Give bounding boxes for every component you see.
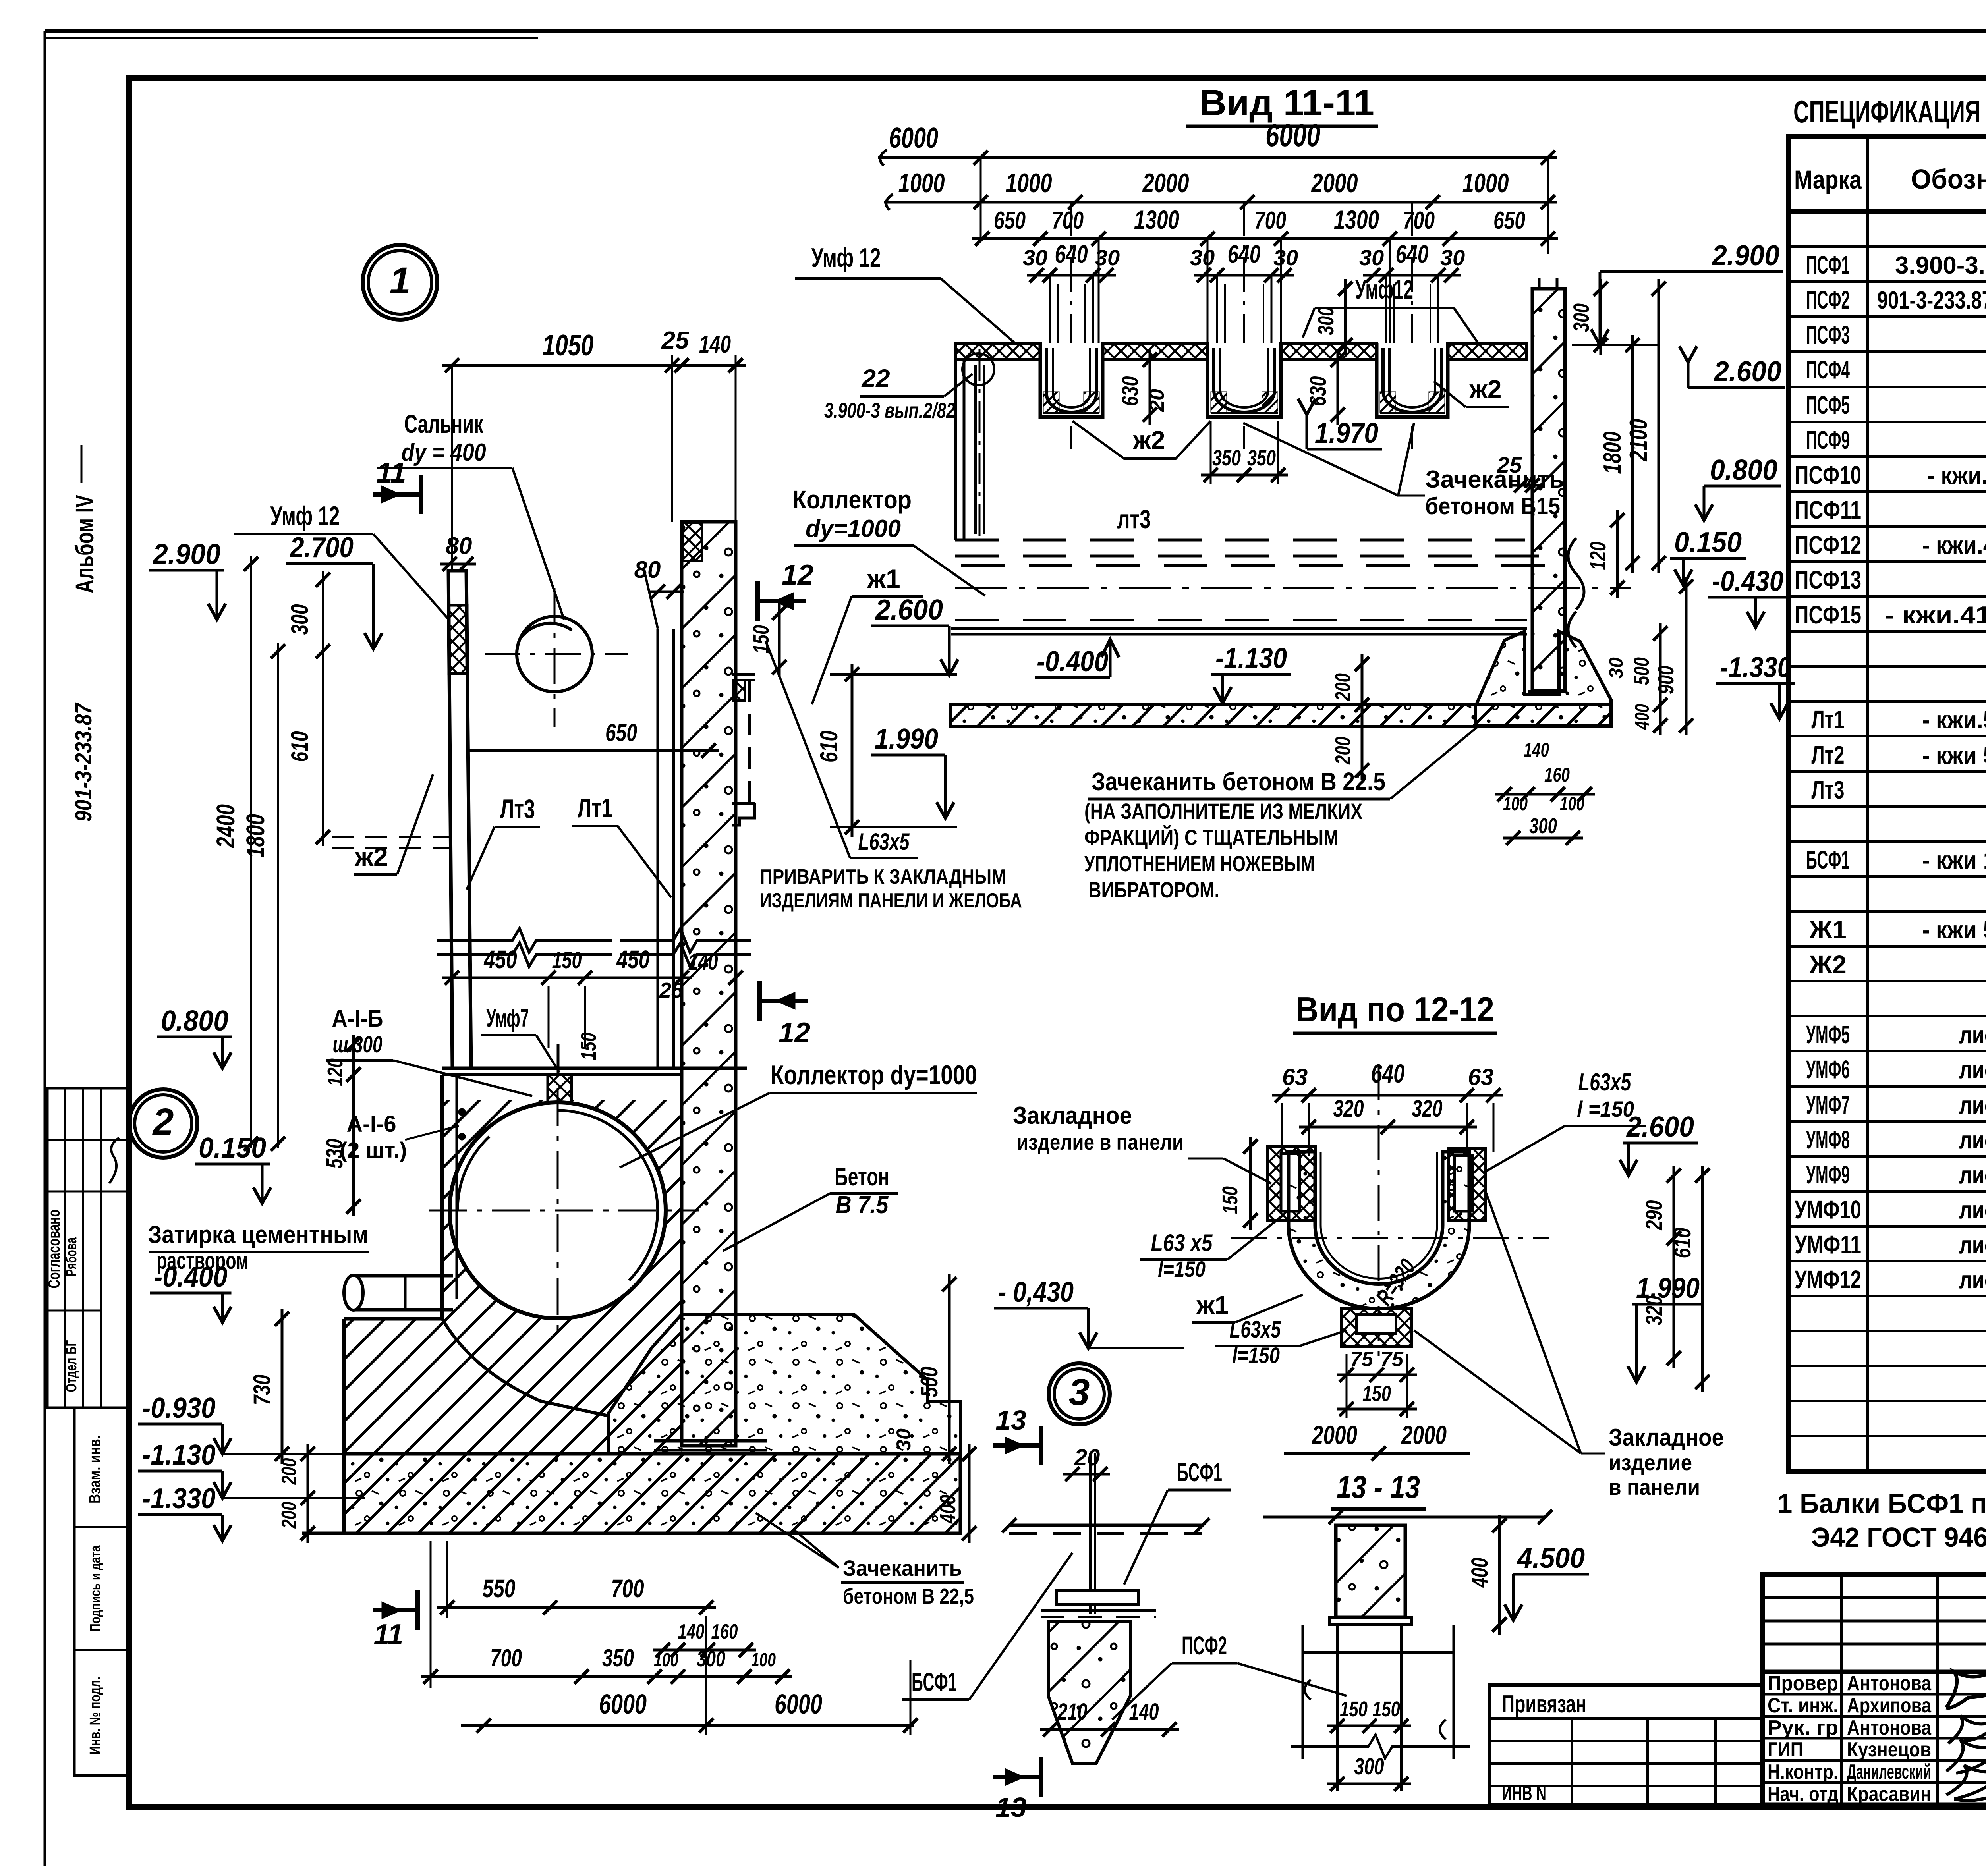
svg-text:100: 100 (751, 1650, 776, 1671)
v12 embed blocks (1268, 1146, 1486, 1220)
svg-text:140: 140 (699, 331, 731, 358)
svg-text:УМФ12: УМФ12 (1795, 1265, 1861, 1294)
svg-text:лист 54: лист 54 (1959, 1127, 1986, 1154)
svg-text:30: 30 (1023, 245, 1047, 270)
view 12-12 title (1293, 990, 1497, 1033)
node circle 1 (363, 245, 437, 320)
svg-text:0.150: 0.150 (1674, 527, 1742, 558)
svg-text:- кжи 13,00,00: - кжи 13,00,00 (1922, 847, 1986, 874)
svg-text:ИЗДЕЛИЯМ ПАНЕЛИ И ЖЕЛОБА: ИЗДЕЛИЯМ ПАНЕЛИ И ЖЕЛОБА (760, 889, 1022, 912)
svg-text:0.150: 0.150 (199, 1132, 266, 1164)
svg-text:Зачеканить бетоном В 22.5: Зачеканить бетоном В 22.5 (1092, 767, 1385, 796)
svg-text:75: 75 (1350, 1348, 1374, 1371)
v11 dim row4 30 640 30 (1023, 240, 1465, 282)
svg-text:6000: 6000 (889, 122, 938, 154)
svg-text:901-3-233.87: 901-3-233.87 (71, 702, 97, 822)
svg-text:11: 11 (377, 457, 406, 489)
svg-text:l =150: l =150 (1577, 1096, 1634, 1121)
node3 section 13 top marker (993, 1405, 1041, 1465)
svg-text:лт3: лт3 (1117, 504, 1151, 534)
section marker 12 top (758, 559, 813, 621)
svg-text:УМФ7: УМФ7 (1806, 1090, 1850, 1119)
v11 channels (1040, 343, 1448, 417)
v11 umf12 label left (795, 243, 1017, 345)
zatirka label (148, 1221, 370, 1274)
svg-text:изделие в панели: изделие в панели (1017, 1129, 1184, 1154)
v12 labels right (1486, 1069, 1710, 1392)
svg-text:200: 200 (1331, 737, 1355, 765)
salnik label (377, 409, 564, 620)
svg-text:0.800: 0.800 (1710, 454, 1777, 486)
svg-text:Антонова: Антонова (1847, 1672, 1932, 1695)
svg-text:Э42 ГОСТ 9467-75 , катет шва: Э42 ГОСТ 9467-75 , катет шва-8мм , длина… (1811, 1522, 1986, 1553)
svg-text:Отдел БГ: Отдел БГ (63, 1340, 80, 1392)
svg-text:6000: 6000 (599, 1689, 647, 1720)
svg-text:1.990: 1.990 (875, 723, 938, 755)
svg-text:Умф 12: Умф 12 (270, 501, 340, 531)
v12 dims 63 640 63 (1272, 1059, 1503, 1156)
pipe left (344, 1275, 453, 1310)
v11 dims 25 1800 2100 (1497, 279, 1781, 573)
svg-text:ж1: ж1 (1196, 1291, 1229, 1319)
svg-text:Кузнецов: Кузнецов (1847, 1738, 1931, 1761)
svg-text:-0.430: -0.430 (1712, 566, 1783, 597)
svg-text:-0.400: -0.400 (1037, 646, 1108, 677)
svg-text:ПСФ2: ПСФ2 (1806, 286, 1850, 314)
svg-text:2.900: 2.900 (1711, 240, 1779, 272)
svg-text:В 7.5: В 7.5 (836, 1191, 889, 1219)
v11 bottom slab and footing (951, 631, 1611, 727)
svg-text:150: 150 (552, 948, 582, 973)
svg-text:Умф 12: Умф 12 (811, 243, 881, 273)
svg-text:63: 63 (1468, 1064, 1494, 1090)
svg-text:63: 63 (1282, 1064, 1308, 1090)
svg-text:Провер: Провер (1768, 1672, 1838, 1695)
svg-text:Н.контр.: Н.контр. (1768, 1760, 1838, 1783)
svg-text:ж2: ж2 (354, 842, 388, 871)
svg-text:- кжи.42,00,00-01: - кжи.42,00,00-01 (1927, 462, 1986, 489)
svg-text:300: 300 (697, 1646, 725, 1671)
svg-text:лист 54: лист 54 (1959, 1162, 1986, 1189)
svg-text:Рябова: Рябова (63, 1237, 80, 1276)
svg-text:ФРАКЦИЙ) С ТЩАТЕЛЬНЫМ: ФРАКЦИЙ) С ТЩАТЕЛЬНЫМ (1084, 825, 1339, 850)
svg-text:350: 350 (602, 1644, 634, 1672)
svg-text:1.990: 1.990 (1636, 1272, 1700, 1304)
svg-text:30: 30 (1190, 245, 1215, 270)
svg-text:2.900: 2.900 (152, 538, 220, 570)
svg-text:- кжи.51.00.00: - кжи.51.00.00 (1922, 706, 1986, 734)
svg-text:dy = 400: dy = 400 (402, 439, 486, 466)
svg-text:13: 13 (995, 1405, 1026, 1436)
svg-text:Закладное: Закладное (1609, 1424, 1724, 1451)
svg-text:30: 30 (1273, 245, 1298, 270)
svg-text:700: 700 (611, 1574, 644, 1603)
v12 level -0.430 (994, 1276, 1184, 1348)
svg-text:- кжи 52,00,00: - кжи 52,00,00 (1922, 742, 1986, 769)
svg-text:2.600: 2.600 (1626, 1111, 1694, 1143)
svg-text:30: 30 (1606, 657, 1627, 679)
v11 350 350 dim (1201, 421, 1288, 484)
v11 dim row2 (884, 168, 1557, 210)
svg-text:лист 56: лист 56 (1959, 1092, 1986, 1119)
13-13 column (1263, 1510, 1552, 1625)
svg-text:БСФ1: БСФ1 (912, 1667, 957, 1697)
center note zachekanit 22.5 (1084, 727, 1478, 902)
svg-text:Лт3: Лт3 (1812, 776, 1845, 804)
svg-text:-1.330: -1.330 (142, 1483, 216, 1515)
node3 BSF1 label (1124, 1457, 1231, 1585)
svg-text:ПСФ11: ПСФ11 (1795, 496, 1861, 524)
break lines mid (437, 928, 751, 967)
svg-text:2000: 2000 (1311, 168, 1358, 198)
svg-text:80: 80 (446, 533, 472, 559)
v11 bottom levels (1035, 577, 1795, 845)
chamber top slab (442, 1044, 747, 1105)
svg-text:2000: 2000 (1311, 1420, 1357, 1449)
v11 top dim 6000 (878, 118, 1557, 166)
svg-text:13: 13 (995, 1792, 1026, 1823)
svg-text:150: 150 (1340, 1697, 1368, 1721)
svg-text:12: 12 (782, 559, 813, 591)
v11 extension verticals (981, 158, 1548, 449)
svg-text:2.700: 2.700 (289, 532, 354, 564)
svg-text:13 - 13: 13 - 13 (1337, 1469, 1420, 1505)
title block outer (1762, 1575, 1986, 1805)
svg-text:ПСФ9: ПСФ9 (1806, 426, 1850, 454)
svg-text:300: 300 (1354, 1754, 1384, 1779)
svg-text:3.900-3. вып.4/82: 3.900-3. вып.4/82 (1895, 252, 1986, 279)
svg-text:Инв. № подл.: Инв. № подл. (87, 1677, 104, 1754)
svg-text:6000: 6000 (775, 1689, 822, 1720)
v11 left edge walls (956, 349, 994, 540)
svg-text:ГИП: ГИП (1768, 1738, 1803, 1761)
section marker 11 top (373, 457, 421, 514)
svg-text:140: 140 (678, 1620, 705, 1643)
right wall assembly (644, 522, 767, 1450)
margin boxes Взам/Подпись/Инв (74, 1408, 129, 1776)
svg-text:ПСФ13: ПСФ13 (1795, 566, 1861, 594)
svg-text:12: 12 (779, 1017, 810, 1049)
svg-text:ж1: ж1 (867, 564, 900, 593)
v11 callout 22 (824, 364, 972, 423)
svg-text:ПСФ10: ПСФ10 (1795, 461, 1861, 489)
foundation mass (222, 1314, 960, 1533)
dim 450 150 450 (442, 945, 743, 1048)
v11 zachekanit B15 (1243, 423, 1564, 519)
svg-text:УМФ6: УМФ6 (1806, 1055, 1850, 1084)
svg-text:ПСФ3: ПСФ3 (1806, 320, 1850, 349)
svg-text:ПСФ1: ПСФ1 (1806, 251, 1850, 279)
salnik circle (485, 588, 628, 727)
svg-text:140: 140 (1129, 1699, 1159, 1725)
svg-text:Бетон: Бетон (835, 1162, 889, 1191)
v11 right levels (1313, 240, 1785, 388)
v12 labels left (1013, 1102, 1283, 1282)
svg-text:610: 610 (815, 731, 843, 762)
svg-text:200: 200 (278, 1502, 301, 1529)
svg-text:1 Балки БСФ1 приварить к з: 1 Балки БСФ1 приварить к закладной панел… (1777, 1488, 1986, 1519)
13-13 dims (1327, 1515, 1589, 1791)
svg-text:1.970: 1.970 (1315, 417, 1378, 449)
top dim 1050/25/140 (442, 327, 746, 571)
chamber interior concrete fill (344, 1100, 682, 1454)
svg-text:160: 160 (1544, 764, 1570, 786)
svg-text:200: 200 (278, 1458, 301, 1485)
svg-text:-1.130: -1.130 (142, 1439, 216, 1471)
svg-text:300: 300 (286, 604, 313, 635)
svg-text:900: 900 (1653, 666, 1678, 694)
v11 bottom dashed lines (951, 504, 1631, 634)
svg-text:лист 54: лист 54 (1959, 1056, 1986, 1084)
svg-text:30: 30 (1359, 245, 1384, 270)
svg-text:(НА ЗАПОЛНИТЕЛЕ ИЗ МЕЛКИХ: (НА ЗАПОЛНИТЕЛЕ ИЗ МЕЛКИХ (1084, 799, 1362, 824)
svg-text:Коллектор: Коллектор (792, 485, 912, 514)
svg-text:ПСФ12: ПСФ12 (1795, 531, 1861, 559)
svg-text:- кжи.41.00.00-07: - кжи.41.00.00-07 (1885, 602, 1986, 629)
svg-text:6000: 6000 (1265, 118, 1320, 153)
svg-text:ш.300: ш.300 (333, 1032, 383, 1058)
zh2 label (354, 774, 433, 874)
svg-text:350: 350 (1212, 445, 1241, 470)
svg-text:ИНВ N: ИНВ N (1502, 1782, 1546, 1805)
svg-text:150: 150 (1362, 1381, 1391, 1406)
svg-text:1800: 1800 (1599, 432, 1626, 474)
svg-text:лист 54: лист 54 (1959, 1021, 1986, 1049)
svg-text:Умф7: Умф7 (487, 1005, 529, 1032)
title block left grid (1762, 1575, 1986, 1805)
zachekanit bottom left (756, 1513, 974, 1608)
svg-text:Лт1: Лт1 (578, 793, 612, 823)
svg-text:140: 140 (1524, 739, 1549, 761)
svg-text:Умф12: Умф12 (1355, 274, 1413, 305)
svg-text:- кжи.43,00,00: - кжи.43,00,00 (1922, 532, 1986, 559)
svg-text:УМФ11: УМФ11 (1795, 1230, 1861, 1259)
node3 slab (1002, 1445, 1209, 1614)
left tall dims 2400 1800 610 300 (211, 556, 449, 1151)
svg-text:290: 290 (1641, 1200, 1667, 1231)
svg-text:Затирка цементным: Затирка цементным (148, 1221, 369, 1249)
spec table grid (1788, 136, 1986, 1471)
svg-text:ж2: ж2 (1133, 426, 1165, 454)
svg-text:лист 55: лист 55 (1959, 1266, 1986, 1294)
svg-text:20: 20 (1146, 389, 1169, 412)
svg-text:Данилевский: Данилевский (1847, 1760, 1931, 1783)
svg-text:100: 100 (654, 1650, 678, 1671)
svg-text:2100: 2100 (1625, 419, 1652, 462)
v12 bottom L63 label (1215, 1316, 1347, 1368)
svg-text:L63х5: L63х5 (1578, 1069, 1632, 1096)
svg-text:450: 450 (616, 945, 650, 974)
svg-text:Лт3: Лт3 (500, 794, 535, 824)
svg-text:лист 54: лист 54 (1959, 1197, 1986, 1224)
svg-text:530: 530 (322, 1139, 348, 1169)
levels 2.900 2.700 left (149, 532, 382, 649)
svg-text:ПСФ2: ПСФ2 (1182, 1631, 1227, 1660)
svg-text:120: 120 (1585, 542, 1610, 570)
svg-text:500: 500 (916, 1367, 943, 1397)
svg-text:ПСФ15: ПСФ15 (1795, 600, 1861, 629)
svg-text:Архипова: Архипова (1847, 1694, 1932, 1717)
svg-text:210: 210 (1057, 1699, 1088, 1725)
svg-text:120: 120 (323, 1058, 347, 1086)
svg-text:300: 300 (1313, 307, 1338, 335)
svg-text:320: 320 (1412, 1095, 1443, 1122)
svg-text:160: 160 (711, 1620, 738, 1643)
weld note (760, 643, 1022, 912)
view 11-11 title (1186, 83, 1378, 126)
svg-text:100: 100 (1560, 793, 1584, 814)
svg-text:25: 25 (1497, 452, 1522, 477)
note below table (1777, 1488, 1986, 1553)
svg-text:25: 25 (661, 327, 690, 354)
svg-text:550: 550 (483, 1574, 516, 1603)
svg-text:Ст. инж.: Ст. инж. (1768, 1694, 1838, 1717)
signatures squiggles (1946, 1666, 1986, 1801)
svg-text:11: 11 (374, 1619, 404, 1650)
svg-text:Коллектор dy=1000: Коллектор dy=1000 (771, 1060, 977, 1090)
svg-text:изделие: изделие (1609, 1450, 1692, 1475)
svg-text:320: 320 (1333, 1095, 1364, 1122)
svg-text:УМФ10: УМФ10 (1795, 1195, 1861, 1224)
v11 630 20 dims (1117, 350, 1345, 425)
svg-text:150: 150 (1372, 1697, 1400, 1721)
svg-text:бетоном В 22,5: бетоном В 22,5 (843, 1585, 974, 1608)
v12 bottom pad (1342, 1309, 1412, 1347)
svg-text:400: 400 (1467, 1558, 1493, 1588)
level -0.400 (150, 1261, 232, 1322)
svg-text:Марка: Марка (1794, 165, 1862, 194)
Lt3 Lt1 labels (467, 793, 671, 897)
svg-text:Лт2: Лт2 (1812, 741, 1845, 769)
svg-text:4.500: 4.500 (1517, 1542, 1585, 1574)
svg-text:2400: 2400 (211, 804, 240, 848)
svg-text:Закладное: Закладное (1013, 1102, 1132, 1129)
node3 labels (902, 1553, 1347, 1720)
svg-text:- 0,430: - 0,430 (998, 1276, 1074, 1308)
svg-text:400: 400 (1631, 704, 1653, 730)
svg-text:80: 80 (634, 556, 661, 583)
svg-text:1000: 1000 (1006, 168, 1052, 198)
signature rows text (1768, 1672, 1932, 1806)
svg-text:-1.330: -1.330 (1720, 652, 1791, 683)
svg-text:150: 150 (577, 1033, 601, 1060)
svg-text:650: 650 (994, 207, 1026, 234)
section marker 11 bottom (373, 1590, 417, 1650)
v12 zh1 label (1192, 1291, 1303, 1322)
svg-text:400: 400 (935, 1495, 960, 1524)
svg-text:350: 350 (1247, 445, 1276, 470)
svg-text:450: 450 (483, 945, 517, 974)
svg-text:0.800: 0.800 (161, 1005, 228, 1037)
svg-text:Подпись и дата: Подпись и дата (87, 1545, 103, 1632)
svg-text:300: 300 (1529, 814, 1557, 838)
v12 U channel body (1231, 1064, 1549, 1358)
svg-text:УПЛОТНЕНИЕМ НОЖЕВЫМ: УПЛОТНЕНИЕМ НОЖЕВЫМ (1084, 851, 1315, 876)
node circle 2 (129, 1089, 197, 1158)
zh1 bracket detail right (732, 674, 755, 825)
svg-text:630: 630 (1305, 376, 1331, 406)
svg-text:А-I-Б: А-I-Б (332, 1005, 383, 1032)
project number vertical (71, 702, 97, 822)
v11 umf12 label right (1303, 274, 1478, 342)
svg-text:Зачеканить: Зачеканить (843, 1556, 962, 1581)
svg-text:30: 30 (1440, 245, 1465, 270)
svg-text:3: 3 (1069, 1371, 1090, 1413)
svg-text:Красавин: Красавин (1847, 1783, 1931, 1806)
svg-text:ПСФ5: ПСФ5 (1806, 391, 1850, 419)
bottom dim chains (421, 1541, 918, 1735)
svg-text:630: 630 (1117, 376, 1143, 406)
13-13 title (1331, 1469, 1426, 1509)
svg-text:650: 650 (605, 719, 637, 747)
levels 0.800 0.150 (157, 1005, 361, 1216)
svg-text:1800: 1800 (241, 814, 270, 858)
v11 zh2 labels (1072, 375, 1509, 459)
zh1 label and right levels (748, 564, 958, 837)
svg-text:25: 25 (659, 979, 684, 1002)
svg-text:Ж2: Ж2 (1809, 950, 1846, 979)
svg-text:УМФ8: УМФ8 (1806, 1125, 1850, 1154)
approval stamp column (44, 1088, 129, 1408)
svg-text:140: 140 (688, 949, 718, 975)
svg-text:700: 700 (1403, 207, 1435, 234)
svg-text:в панели: в панели (1609, 1475, 1700, 1500)
svg-text:-0.400: -0.400 (154, 1261, 228, 1293)
svg-text:1000: 1000 (1462, 168, 1509, 198)
svg-text:ВИБРАТОРОМ.: ВИБРАТОРОМ. (1088, 877, 1219, 902)
svg-text:L63х5: L63х5 (1230, 1316, 1281, 1343)
svg-text:лист 54: лист 54 (1959, 1231, 1986, 1259)
svg-text:Антонова: Антонова (1847, 1716, 1932, 1739)
svg-text:1050: 1050 (543, 328, 594, 362)
collector label / beton label (620, 1060, 977, 1251)
svg-text:L63х5: L63х5 (858, 828, 910, 855)
node3 dims 210 140 (1040, 1699, 1179, 1737)
svg-text:бетоном В15: бетоном В15 (1425, 493, 1560, 519)
v11 right wall S-breaks (1568, 510, 1787, 647)
v11 dim row3 (972, 205, 1558, 246)
svg-text:Сальник: Сальник (404, 409, 484, 438)
left wall Lt3 (448, 571, 471, 1068)
svg-text:ПРИВАРИТЬ К ЗАКЛАДНЫМ: ПРИВАРИТЬ К ЗАКЛАДНЫМ (760, 865, 1006, 888)
chamber left wall (442, 1075, 457, 1319)
svg-text:75: 75 (1380, 1348, 1404, 1371)
svg-text:300: 300 (1569, 303, 1594, 332)
node circle 3 (1049, 1363, 1110, 1424)
svg-text:Лт1: Лт1 (1812, 705, 1845, 734)
svg-text:УМФ9: УМФ9 (1806, 1160, 1850, 1189)
svg-text:Согласовано: Согласовано (44, 1210, 63, 1289)
svg-text:БСФ1: БСФ1 (1177, 1457, 1222, 1487)
svg-text:УМФ5: УМФ5 (1806, 1020, 1850, 1049)
svg-text:610: 610 (286, 731, 313, 762)
80 dims (440, 533, 719, 758)
svg-text:650: 650 (1493, 207, 1525, 234)
svg-text:1000: 1000 (898, 168, 945, 198)
svg-text:1300: 1300 (1134, 205, 1179, 234)
zakladnoe label right (1414, 1191, 1724, 1500)
collector big circle (429, 1088, 699, 1334)
svg-text:L63 х5: L63 х5 (1151, 1229, 1213, 1256)
svg-text:Рук. гр: Рук. гр (1768, 1716, 1838, 1739)
svg-text:Вид 11-11: Вид 11-11 (1200, 83, 1374, 123)
album label (70, 445, 99, 593)
collector label top (792, 485, 985, 596)
svg-text:901-3-233.87-кжи.41.00,00: 901-3-233.87-кжи.41.00,00 (1877, 287, 1986, 314)
A-I-B labels (326, 1005, 601, 1162)
v12 2000 2000 dim (1284, 1420, 1470, 1461)
svg-text:БСФ1: БСФ1 (1806, 845, 1850, 874)
